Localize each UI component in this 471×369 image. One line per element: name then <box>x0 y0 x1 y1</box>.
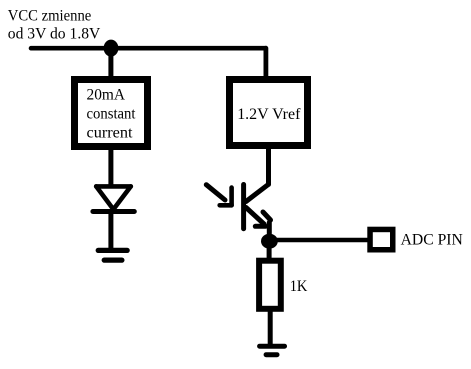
svg-text:current: current <box>87 124 134 141</box>
svg-text:ADC PIN: ADC PIN <box>401 231 464 248</box>
svg-text:VCC zmienne: VCC zmienne <box>8 8 92 25</box>
svg-text:20mA: 20mA <box>87 86 126 103</box>
svg-text:od 3V do 1.8V: od 3V do 1.8V <box>8 25 101 42</box>
svg-text:1.2V Vref: 1.2V Vref <box>237 106 301 123</box>
svg-text:constant: constant <box>87 106 137 123</box>
svg-text:1K: 1K <box>290 278 308 295</box>
